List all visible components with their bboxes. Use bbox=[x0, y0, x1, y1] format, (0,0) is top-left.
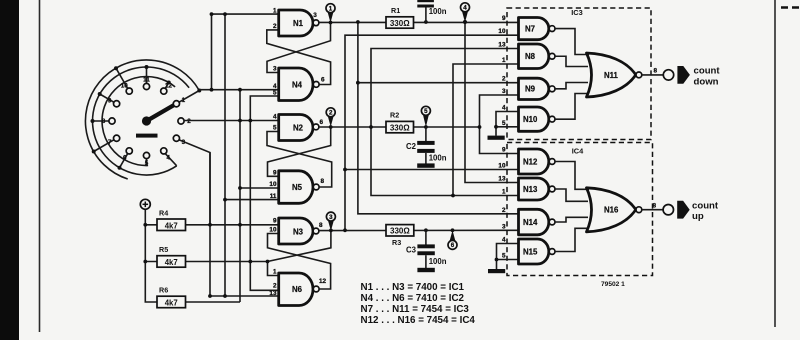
switch contact number labels bbox=[102, 77, 192, 167]
svg-text:2: 2 bbox=[273, 23, 277, 30]
svg-text:N1: N1 bbox=[293, 19, 304, 28]
NAND gate N12 bbox=[519, 149, 555, 174]
NAND gate N6 bbox=[269, 269, 326, 306]
NAND gate N5 bbox=[269, 170, 324, 204]
svg-text:4: 4 bbox=[273, 114, 277, 121]
arrow count down bbox=[677, 66, 690, 84]
svg-text:13: 13 bbox=[269, 290, 277, 297]
svg-text:2: 2 bbox=[187, 118, 191, 125]
ground below C3 bbox=[417, 268, 434, 272]
N10 pins 4-5 ground loop bbox=[494, 112, 518, 136]
IC3 dashed box bbox=[507, 8, 651, 140]
rotary switch inner arc bbox=[102, 77, 175, 166]
svg-text:N12 . . . N16 = 7454 = IC4: N12 . . . N16 = 7454 = IC4 bbox=[361, 315, 476, 326]
IC3 pin number labels bbox=[498, 15, 506, 127]
supply + vertical rail bbox=[145, 209, 157, 302]
svg-text:12: 12 bbox=[319, 278, 327, 285]
NAND gate N14 bbox=[519, 209, 555, 235]
svg-text:2: 2 bbox=[273, 282, 277, 289]
resistor R1 330ohm bbox=[386, 6, 414, 28]
svg-text:330Ω: 330Ω bbox=[390, 19, 410, 28]
wire N5 pin10 row from R4 vertical bbox=[240, 187, 279, 189]
svg-text:C2: C2 bbox=[406, 142, 417, 151]
svg-text:N4 . . . N6 = 7410 = IC2: N4 . . . N6 = 7410 = IC2 bbox=[361, 293, 465, 304]
ground at N15 bbox=[488, 269, 505, 273]
svg-text:5: 5 bbox=[273, 90, 277, 97]
svg-text:3: 3 bbox=[502, 88, 506, 95]
node balloon 5 bbox=[421, 106, 430, 127]
junction dots left region bbox=[143, 12, 269, 298]
wire N13 out stair to N16 bbox=[555, 189, 588, 201]
wire IC3 pin2 row bbox=[358, 82, 519, 84]
junction dot node 3 bbox=[329, 229, 333, 233]
svg-text:1: 1 bbox=[502, 57, 506, 64]
svg-text:4: 4 bbox=[463, 5, 467, 12]
svg-text:N11: N11 bbox=[604, 71, 619, 80]
node balloon 2 bbox=[326, 108, 335, 127]
wire IC4 pin13 row from balloon4 vertical bbox=[465, 22, 519, 183]
svg-text:N5: N5 bbox=[292, 183, 303, 192]
switch contact radial c8 to middle arc bbox=[93, 120, 109, 122]
NAND gate N10 bbox=[519, 107, 555, 131]
wire N8 out stair to N11 bbox=[555, 56, 588, 66]
svg-text:R6: R6 bbox=[159, 286, 168, 295]
right column rule bbox=[774, 0, 776, 327]
svg-text:R4: R4 bbox=[159, 209, 168, 218]
svg-text:1: 1 bbox=[273, 7, 277, 14]
svg-text:N1 . . . N3 = 7400 = IC1: N1 . . . N3 = 7400 = IC1 bbox=[361, 282, 465, 293]
svg-text:R1: R1 bbox=[391, 6, 400, 15]
svg-text:N10: N10 bbox=[523, 115, 538, 124]
wire R3 row N3 out to IC4 pin3 bbox=[319, 229, 519, 231]
arrow count up bbox=[677, 201, 690, 219]
svg-text:count: count bbox=[692, 200, 719, 211]
wire contact3 vertical to N6 pin13 row bbox=[210, 153, 279, 297]
svg-text:4: 4 bbox=[167, 154, 171, 161]
wire long vertical x240 from N4 pin4 row to R6 row bbox=[239, 90, 241, 302]
svg-text:N7 . . . N11 = 7454 = IC3: N7 . . . N11 = 7454 = IC3 bbox=[361, 304, 470, 315]
svg-text:9: 9 bbox=[502, 15, 506, 22]
svg-text:330Ω: 330Ω bbox=[390, 124, 410, 133]
svg-text:4k7: 4k7 bbox=[165, 258, 178, 267]
wire R1 row N1 out to IC3 pin9 bbox=[319, 21, 519, 23]
svg-text:2: 2 bbox=[329, 110, 333, 117]
svg-text:13: 13 bbox=[498, 176, 506, 183]
svg-text:10: 10 bbox=[269, 181, 277, 188]
NAND gate N15 bbox=[519, 239, 555, 264]
wire N7 out stair to N11 bbox=[555, 29, 589, 55]
svg-text:4: 4 bbox=[502, 105, 506, 112]
ground below C2 bbox=[417, 163, 434, 167]
resistor R2 330ohm bbox=[386, 110, 414, 133]
svg-text:100n: 100n bbox=[429, 7, 447, 16]
cross-coupling N4 out to N1 pin2 bbox=[267, 30, 331, 85]
svg-text:C3: C3 bbox=[406, 245, 417, 254]
capacitor 100n top bbox=[417, 0, 446, 22]
switch contact radial c11 to middle arc bbox=[146, 67, 148, 83]
svg-text:11: 11 bbox=[270, 193, 277, 200]
svg-text:9: 9 bbox=[273, 217, 277, 224]
NAND gate N7 bbox=[519, 18, 555, 40]
svg-text:3: 3 bbox=[182, 139, 186, 146]
junction dots middle region bbox=[343, 20, 481, 232]
wire N16 output bbox=[642, 209, 663, 211]
wire outer arc exit row to N4 pin4 bbox=[199, 89, 278, 91]
node balloon 3 bbox=[326, 212, 335, 231]
svg-text:down: down bbox=[694, 76, 719, 87]
svg-text:5: 5 bbox=[502, 253, 506, 260]
svg-text:3: 3 bbox=[502, 223, 506, 230]
svg-text:1: 1 bbox=[182, 97, 186, 104]
wire vertical N1 out bus x358 bbox=[358, 22, 519, 213]
switch contact radial c10 to outer arc bbox=[116, 68, 128, 88]
svg-text:330Ω: 330Ω bbox=[390, 227, 410, 236]
svg-text:10: 10 bbox=[498, 163, 506, 170]
svg-text:N7: N7 bbox=[525, 24, 535, 33]
svg-text:N2: N2 bbox=[293, 124, 304, 133]
svg-text:1: 1 bbox=[273, 269, 277, 276]
wire IC4 pin10 row from N3 out bus bbox=[345, 169, 519, 171]
svg-text:8: 8 bbox=[654, 68, 658, 75]
svg-text:IC4: IC4 bbox=[572, 147, 584, 156]
cross-coupling N6 out to N3 pin10 bbox=[268, 234, 331, 290]
svg-text:4k7: 4k7 bbox=[165, 221, 178, 230]
page edge black strip bbox=[0, 0, 19, 340]
wire R4 row to N3 pin9 bbox=[145, 224, 278, 226]
switch contact radial c9 to middle arc bbox=[100, 94, 114, 102]
svg-text:12: 12 bbox=[165, 83, 173, 90]
svg-text:100n: 100n bbox=[429, 154, 447, 163]
svg-text:3: 3 bbox=[273, 66, 277, 73]
switch contact radial c1 to outer arc bbox=[179, 91, 199, 103]
svg-text:9: 9 bbox=[273, 170, 277, 177]
svg-text:2: 2 bbox=[502, 76, 506, 83]
wire IC3 pin10 row from N3 out bus x345 bbox=[345, 35, 519, 230]
NAND gate N9 bbox=[519, 78, 555, 99]
output terminal count up bbox=[663, 205, 673, 215]
svg-text:R2: R2 bbox=[390, 110, 399, 119]
junction dot node 2 bbox=[329, 125, 333, 129]
cross-coupling N5 out to N2 pin5 bbox=[267, 132, 332, 188]
svg-text:5: 5 bbox=[273, 125, 277, 132]
svg-text:5: 5 bbox=[502, 120, 506, 127]
wire N14 out stair to N16 bbox=[555, 217, 588, 222]
svg-text:6: 6 bbox=[451, 242, 455, 249]
resistor R6 bbox=[157, 286, 186, 308]
resistor R3 330ohm bbox=[386, 225, 414, 247]
NAND gate N2 bbox=[273, 114, 324, 141]
svg-text:7: 7 bbox=[108, 139, 112, 146]
svg-text:N9: N9 bbox=[525, 85, 536, 94]
wire IC3 pin13 row from N2 out bus x371 bbox=[371, 49, 519, 196]
node balloon 4 bbox=[461, 3, 470, 23]
svg-text:11: 11 bbox=[143, 77, 150, 84]
ground at N10 bbox=[488, 136, 505, 140]
wire IC3 pin3 row via x479 vertical bbox=[480, 95, 519, 154]
wire N9 out stair to N11 bbox=[555, 83, 588, 89]
OR gate N16 bbox=[587, 188, 642, 232]
svg-text:N16: N16 bbox=[604, 206, 619, 215]
svg-text:8: 8 bbox=[102, 118, 106, 125]
wire R5 row bbox=[145, 261, 267, 263]
svg-text:6: 6 bbox=[320, 119, 324, 126]
svg-text:N15: N15 bbox=[523, 247, 538, 256]
IC4 pin number labels bbox=[498, 147, 506, 260]
junction dots on x240 vertical bbox=[238, 88, 242, 92]
wire N10 out stair to N11 bbox=[555, 94, 589, 120]
svg-text:3: 3 bbox=[329, 214, 333, 221]
svg-text:up: up bbox=[692, 211, 704, 222]
wire bus vertical x225 bbox=[224, 14, 226, 296]
junction dots on switch arcs bbox=[91, 65, 202, 170]
OR gate N11 bbox=[587, 53, 642, 97]
svg-text:2: 2 bbox=[502, 207, 506, 214]
node balloon 1 bbox=[326, 4, 335, 23]
switch wiper arm bbox=[147, 105, 174, 121]
svg-text:R5: R5 bbox=[159, 245, 168, 254]
NAND gate N8 bbox=[519, 44, 555, 69]
rotary switch middle arc bbox=[93, 67, 190, 175]
wire N5 pin11 row from bus bbox=[225, 199, 279, 201]
wire contact 2 row to N2 pin4 bbox=[184, 120, 279, 122]
wire R6 row bbox=[157, 301, 240, 303]
resistor R4 bbox=[157, 209, 186, 231]
switch contacts 1-12 bbox=[109, 83, 184, 158]
supply terminal + bbox=[140, 199, 150, 209]
cross-coupling N1 out to N4 pin3 bbox=[267, 23, 331, 73]
svg-text:5: 5 bbox=[424, 108, 428, 115]
svg-text:N12: N12 bbox=[523, 157, 538, 166]
svg-text:9: 9 bbox=[502, 147, 506, 154]
wire N15 out stair to N16 bbox=[555, 228, 589, 251]
junction dot node 1 bbox=[329, 21, 333, 25]
cross-coupling N3 out to N6 pin1 bbox=[268, 231, 331, 276]
svg-text:10: 10 bbox=[269, 227, 277, 234]
legend text block bbox=[361, 282, 476, 326]
output terminal count down bbox=[663, 70, 673, 80]
wire contact 3 exit diagonal bbox=[179, 140, 210, 224]
svg-text:N8: N8 bbox=[525, 52, 536, 61]
capacitor C3 100n bbox=[406, 230, 447, 268]
wire N1 pin1 row from switch bbox=[212, 13, 279, 15]
node balloon 6 below wire bbox=[448, 230, 457, 249]
svg-text:N6: N6 bbox=[292, 285, 303, 294]
IC4 dashed box bbox=[507, 143, 653, 276]
svg-text:IC3: IC3 bbox=[571, 8, 583, 17]
NAND gate N1 bbox=[273, 7, 319, 36]
svg-text:10: 10 bbox=[498, 28, 506, 35]
NAND gate N3 bbox=[269, 217, 323, 244]
svg-text:N4: N4 bbox=[292, 81, 303, 90]
rotary switch outer arc bbox=[85, 60, 199, 179]
wire IC3 pin1 row via x453 vertical bbox=[453, 64, 519, 196]
svg-text:3: 3 bbox=[313, 12, 317, 19]
switch index bar bbox=[136, 134, 158, 138]
svg-text:79502 1: 79502 1 bbox=[601, 281, 625, 288]
svg-text:8: 8 bbox=[653, 202, 657, 209]
svg-text:4k7: 4k7 bbox=[165, 299, 178, 308]
svg-text:count: count bbox=[694, 66, 721, 77]
svg-text:N14: N14 bbox=[523, 218, 538, 227]
svg-text:R3: R3 bbox=[392, 238, 401, 247]
N15 pins 4-5 ground loop bbox=[495, 244, 519, 270]
svg-text:N3: N3 bbox=[293, 228, 304, 237]
switch wiper pivot bbox=[142, 116, 151, 125]
capacitor C2 100n bbox=[406, 127, 447, 164]
NAND gate N4 bbox=[273, 66, 325, 101]
resistor R5 bbox=[157, 245, 186, 267]
top-right border dashes bbox=[781, 6, 800, 9]
svg-text:4: 4 bbox=[502, 237, 506, 244]
switch contact radial c6 to middle arc bbox=[120, 154, 128, 168]
wire contact 4 to middle arc tail bbox=[165, 154, 176, 166]
svg-text:5: 5 bbox=[145, 160, 149, 167]
left column rule bbox=[39, 0, 41, 332]
svg-text:100n: 100n bbox=[429, 257, 447, 266]
switch contact radial c7 to outer arc bbox=[94, 140, 114, 152]
svg-text:1: 1 bbox=[502, 189, 506, 196]
NAND gate N13 bbox=[519, 178, 555, 200]
svg-text:8: 8 bbox=[321, 178, 325, 185]
wire N12 out stair to N16 bbox=[555, 162, 589, 190]
wire N4 pin5 from contact2 vertical bbox=[250, 96, 278, 290]
cross-coupling N2 out to N5 pin9 bbox=[268, 127, 331, 177]
svg-text:N13: N13 bbox=[523, 185, 538, 194]
svg-text:13: 13 bbox=[498, 42, 506, 49]
wire N11 output bbox=[642, 74, 664, 76]
wire vertical from N1 pin1 row to outer arc exit bbox=[211, 14, 213, 89]
svg-text:1: 1 bbox=[329, 6, 333, 13]
svg-text:8: 8 bbox=[319, 222, 323, 229]
switch contact radial c12 to inner arc bbox=[165, 83, 168, 89]
svg-text:6: 6 bbox=[123, 154, 127, 161]
switch contact radial c5 to inner arc bbox=[146, 159, 148, 166]
svg-text:6: 6 bbox=[321, 77, 325, 84]
wire R2 row N2 out to C2 node bbox=[319, 126, 480, 128]
svg-text:10: 10 bbox=[121, 83, 129, 90]
svg-text:9: 9 bbox=[108, 98, 112, 105]
